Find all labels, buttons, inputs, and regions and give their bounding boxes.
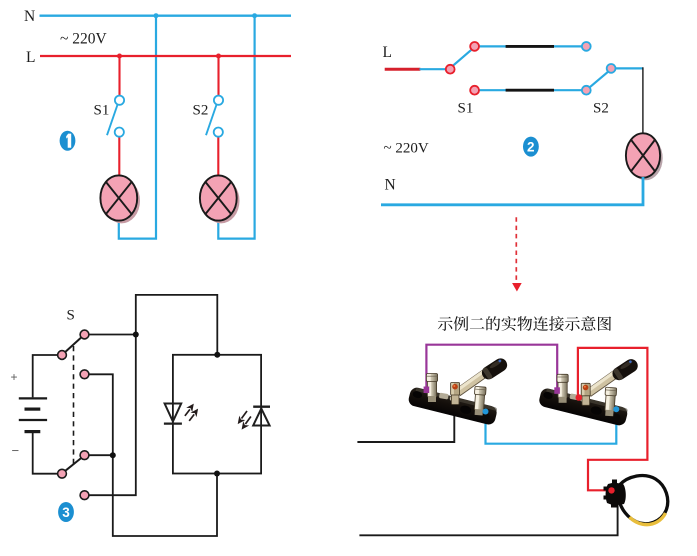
terminal S2 upper: [582, 42, 591, 51]
svg-text:N: N: [385, 177, 396, 194]
bulb socket: [606, 480, 626, 508]
svg-text:2: 2: [527, 140, 535, 155]
wire LED loop rectangle: [173, 355, 261, 474]
connection dot blue sw1: [483, 409, 489, 415]
LED D1 arrows: [185, 404, 198, 421]
svg-text:N: N: [24, 8, 35, 25]
wire J1 top loop to rect top: [136, 295, 218, 355]
terminal T2: [58, 351, 67, 360]
wire upper link blue: [479, 45, 583, 47]
LED D2 arrows: [238, 411, 251, 430]
wire purple link: [426, 345, 557, 391]
svg-text:L: L: [26, 49, 35, 66]
junction L x218.5: [216, 54, 221, 59]
bulb glass outline: [620, 476, 668, 524]
bulb socket notch left: [604, 487, 609, 491]
wire S2 to corner blue: [615, 67, 643, 69]
wire J2 bottom loop to rect bottom: [113, 455, 217, 536]
svg-text:S1: S1: [94, 103, 110, 119]
terminal T5: [58, 469, 67, 478]
knife switch SW2: [538, 357, 640, 427]
switch S2 blade: [590, 72, 608, 87]
junction N x156: [154, 13, 159, 18]
wire T3 to J2: [88, 374, 113, 455]
wire L to S1 (red): [118, 56, 120, 96]
terminal S2 common: [607, 64, 616, 73]
wire black switch1: [357, 405, 454, 443]
wire T4 to J2: [88, 454, 113, 456]
lamp circuit2: [626, 133, 663, 180]
connection dot red sw2: [576, 394, 583, 401]
dashed arrow: [512, 217, 522, 291]
junction rect bottom: [214, 471, 220, 477]
wire L feed red: [385, 68, 421, 71]
wire L to S2 (red): [217, 56, 219, 96]
svg-text:3: 3: [62, 505, 70, 520]
switch S pole1 blade: [65, 337, 82, 353]
badge 1: [60, 131, 76, 151]
junction J1: [133, 332, 139, 338]
connection dot purple sw2: [554, 387, 560, 394]
wire red to bulb: [578, 348, 648, 490]
svg-text:~ 220V: ~ 220V: [60, 31, 108, 48]
switch S1 blade: [453, 49, 472, 65]
wire S2 to lamp2 (red): [217, 137, 219, 177]
wire lamp to N blue: [381, 177, 643, 205]
terminal T3: [80, 370, 89, 379]
title text 示例二的实物连接示意图: [438, 316, 611, 331]
knife switch SW1: [407, 356, 509, 426]
wire lower link blue: [479, 89, 583, 91]
lamp L2: [200, 175, 240, 223]
wire S1 to lamp1 (red): [118, 137, 120, 177]
terminal T1: [80, 330, 89, 339]
LED D2: [253, 407, 270, 426]
junction rect top: [214, 352, 220, 358]
switch S2: [206, 96, 223, 137]
terminal S1 common: [446, 65, 455, 74]
svg-text:L: L: [383, 44, 392, 61]
wire blue link: [486, 410, 617, 444]
bulb yellow rim: [630, 513, 666, 525]
svg-text:−: −: [12, 443, 20, 458]
terminal T6: [80, 491, 89, 500]
switch S pole2 blade: [65, 457, 82, 471]
svg-text:S2: S2: [593, 101, 609, 117]
badge 2: [523, 137, 539, 157]
connection dot purple sw1: [424, 387, 430, 394]
wire battery- to T5: [33, 433, 59, 474]
wire lamp2 return (blue): [218, 16, 254, 239]
wire battery+ to T2: [33, 355, 59, 397]
terminal S1 lower: [470, 86, 479, 95]
wire lamp1 return (blue): [119, 16, 156, 239]
battery B1: [19, 398, 47, 431]
svg-text:+: +: [11, 370, 18, 384]
wire L line: [40, 55, 291, 57]
wire black bulb return: [359, 505, 617, 535]
junction N x254.6: [252, 13, 257, 18]
svg-text:~ 220V: ~ 220V: [384, 141, 429, 157]
lamp L1: [100, 175, 140, 223]
switch S mechanical link dashed: [73, 346, 75, 468]
junction J2: [110, 452, 116, 458]
svg-text:S2: S2: [193, 103, 209, 119]
wire L feed blue: [420, 68, 447, 70]
wire upper link black segment: [506, 45, 554, 48]
wire T1 to J1: [88, 334, 136, 336]
terminal S2 lower: [582, 86, 591, 95]
wire corner to lamp black: [642, 67, 644, 134]
svg-text:S: S: [67, 308, 75, 324]
wire lower link black segment: [506, 89, 554, 92]
connection dot red bulb: [608, 487, 614, 493]
svg-text:S1: S1: [458, 101, 474, 117]
connection dot blue sw2: [613, 406, 619, 412]
LED D1: [164, 404, 182, 424]
badge 3: [58, 502, 74, 522]
wire J1 down to T6: [88, 335, 136, 496]
terminal T4: [80, 451, 89, 460]
switch S1: [107, 96, 124, 137]
junction L x119.5: [117, 54, 122, 59]
wire N line: [40, 15, 292, 17]
terminal S1 upper: [470, 42, 479, 51]
